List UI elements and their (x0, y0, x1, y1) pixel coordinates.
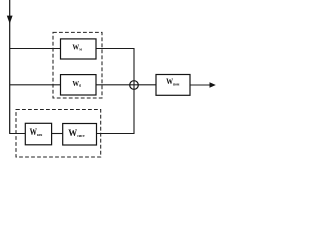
wire: W_b output to summer (96, 84, 156, 86)
block W_pom (156, 75, 190, 96)
dashed box: upper subsystem (53, 32, 102, 98)
wire: branch to W_b (10, 84, 61, 86)
block W_kom (25, 123, 51, 145)
arrow: output arrowhead (210, 82, 216, 87)
arrow: input arrowhead pointing down (7, 16, 13, 24)
block W_m (61, 39, 97, 59)
wire: bus bottom turn into W_kom (9, 133, 25, 135)
wire: output line (190, 84, 211, 86)
wire: bottom path from W_sist up to summer (97, 85, 135, 134)
block W_sist (63, 124, 97, 146)
wire: W_kom to W_sist (52, 133, 63, 135)
wire: branch to W_m (10, 48, 61, 50)
wire: left vertical bus (9, 0, 11, 134)
summing junction (130, 81, 139, 90)
wire: W_m output to corner (96, 49, 134, 86)
dashed box: lower subsystem (16, 110, 101, 158)
block W_b (61, 75, 97, 95)
